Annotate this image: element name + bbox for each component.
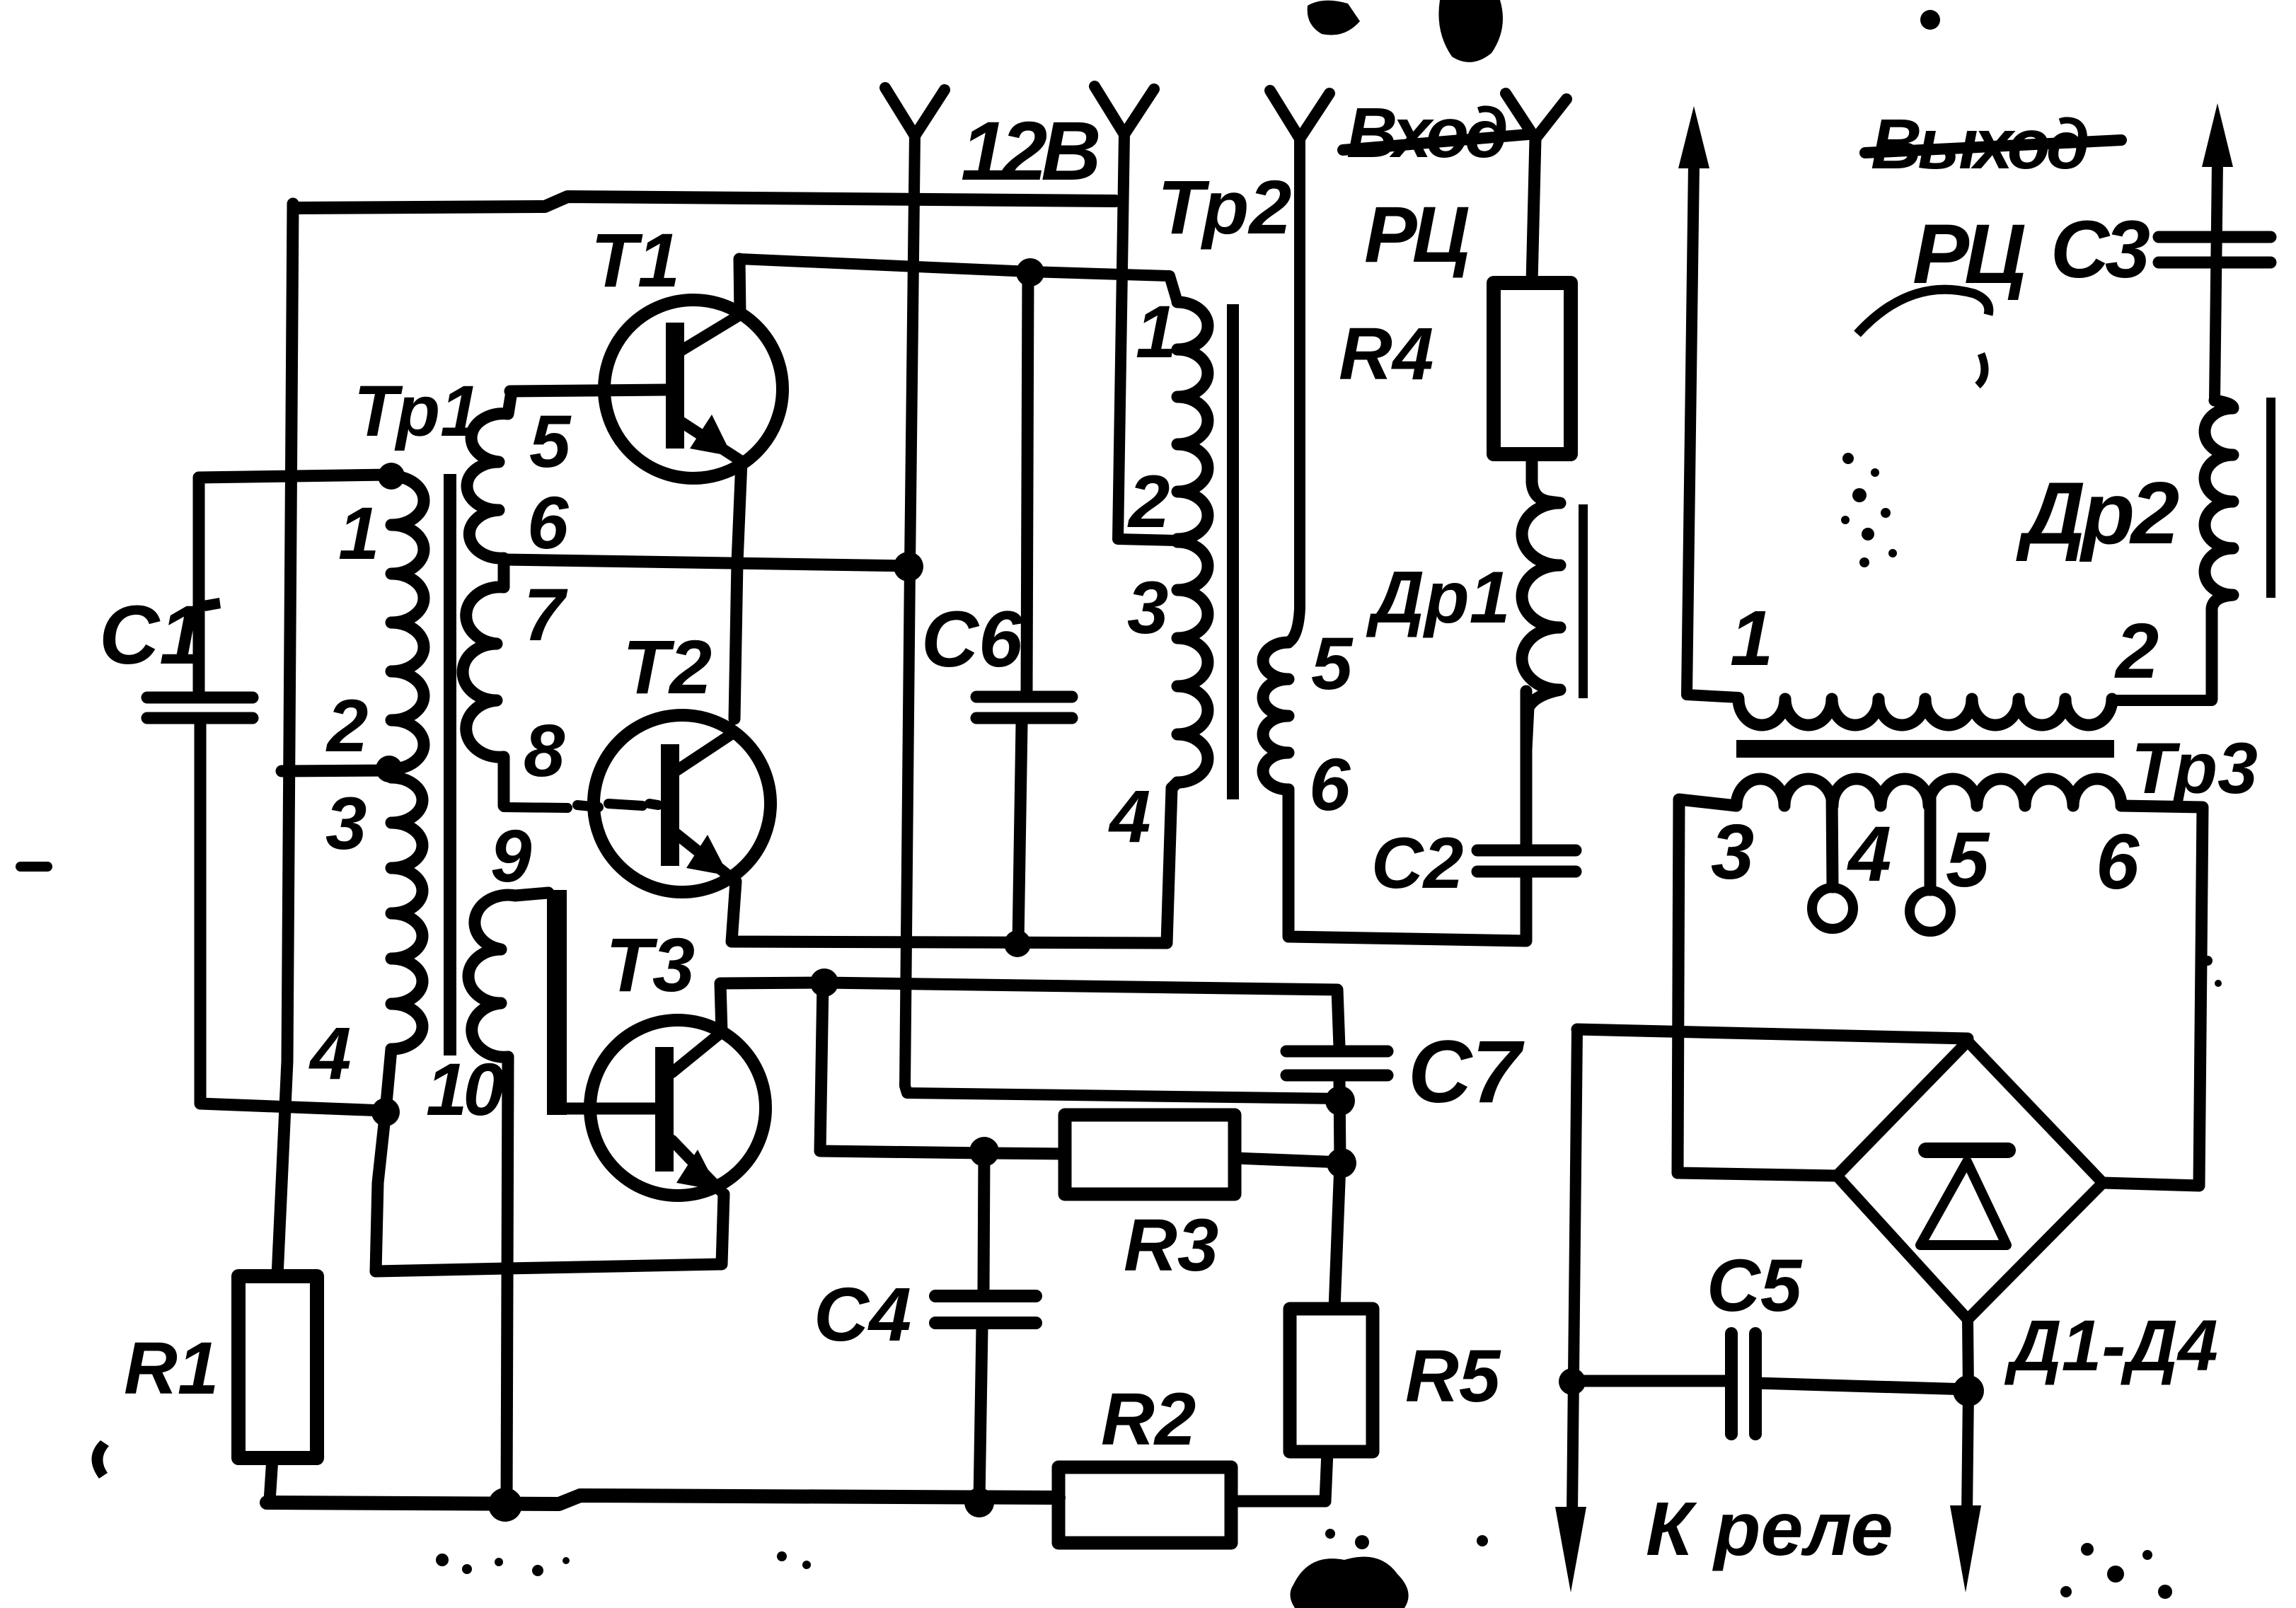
scan speck top right — [1920, 10, 1940, 30]
wire 12V vertical — [905, 133, 1340, 1099]
terminal tap5 circle — [1910, 796, 1951, 932]
wire arrow3 vertical to winding 5 — [1288, 139, 1300, 642]
scan blob bottom middle-right — [1290, 1557, 1408, 1608]
svg-text:С3: С3 — [2050, 204, 2150, 295]
scan paren left of R1 — [91, 1440, 109, 1479]
svg-text:4: 4 — [1847, 811, 1891, 898]
wire Tr2 tap6 to C2 bottom — [1288, 789, 1526, 941]
capacitor C3 — [2159, 237, 2271, 262]
wire tap10 down to ground rail — [507, 1057, 508, 1505]
diode bridge D1-D4 diamond — [1837, 1041, 2103, 1319]
wire branch down to R3/C4 — [820, 983, 1065, 1154]
terminal tap4 circle — [1812, 792, 1853, 929]
node C6 bottom on emitter line — [1004, 930, 1031, 957]
transformer Tr1 secondary winding 7-8 — [463, 562, 504, 806]
capacitor C2 — [1477, 691, 1576, 872]
svg-text:R5: R5 — [1405, 1335, 1501, 1418]
svg-text:10: 10 — [426, 1048, 504, 1131]
node R3 right — [1327, 1148, 1356, 1178]
capacitor C7 — [1286, 1051, 1388, 1309]
node C4 bottom on rail — [964, 1488, 994, 1517]
svg-text:4: 4 — [308, 1012, 351, 1095]
resistor R4 — [1494, 139, 1571, 454]
power terminal fork Tr2-1 — [1095, 86, 1154, 134]
relay terminal arrow right (down) — [1950, 1505, 1981, 1592]
node tap1 Tr1 — [378, 463, 405, 490]
wire collector rail II — [739, 259, 1177, 302]
transformer Tr3 secondary winding 3-6 — [1736, 779, 2121, 806]
label strike-through Vyhod — [1865, 140, 2121, 153]
node C6 top — [1016, 258, 1044, 287]
transistor T1 — [510, 259, 783, 719]
wire Tr3 tap6 lead to bridge right — [2103, 806, 2203, 1186]
wire T3 collector line to C7 — [720, 983, 1339, 1047]
wire tap 2-3 of Tr1 — [282, 770, 391, 771]
svg-text:Тр2: Тр2 — [1158, 164, 1291, 250]
transistor T3 — [590, 1020, 766, 1196]
svg-text:5: 5 — [1311, 623, 1354, 705]
svg-text:С6: С6 — [921, 595, 1023, 683]
transformer Tr2 winding 1-2 — [1177, 302, 1208, 539]
node tap6 junction on 12V line — [894, 552, 923, 582]
wire arrow2 vertical to tap2 — [1118, 134, 1176, 540]
choke Dr2 — [2205, 398, 2275, 699]
node tap4 — [371, 1098, 400, 1126]
capacitor C4 — [935, 1153, 1036, 1501]
wire left DC lead down — [1572, 1029, 1577, 1514]
svg-text:3: 3 — [325, 782, 367, 865]
svg-text:1: 1 — [338, 492, 379, 575]
svg-text:R4: R4 — [1339, 313, 1433, 395]
wire ground rail — [267, 1496, 1058, 1504]
node C5 left — [1559, 1368, 1586, 1395]
transformer Tr1 primary winding 3-4 — [391, 777, 422, 1049]
svg-text:2: 2 — [2114, 608, 2159, 695]
capacitor C1 — [147, 475, 391, 1111]
node tap2-3 — [376, 756, 403, 782]
wire tap8 dashed to T2 base — [504, 804, 658, 808]
svg-text:Тр3: Тр3 — [2131, 728, 2258, 809]
wire tap4 lead down — [376, 1049, 391, 1271]
svg-text:Др1: Др1 — [1366, 557, 1510, 639]
power terminal fork Vhod — [1506, 93, 1567, 139]
svg-text:С7: С7 — [1408, 1023, 1525, 1121]
node C4 top — [969, 1137, 999, 1167]
wire T2 emitter to Tr2 tap4 — [732, 788, 1172, 943]
scan speckle cluster near Dr2 label — [1842, 453, 1854, 464]
svg-text:С2: С2 — [1371, 823, 1463, 903]
scan speckles bottom right corner — [2081, 1543, 2094, 1556]
resistor R2 — [1058, 1467, 1325, 1543]
svg-text:7: 7 — [524, 574, 568, 656]
capacitor C6 — [976, 272, 1072, 943]
power terminal arrow output-2 (solid up arrow) — [2202, 103, 2233, 400]
resistor R3 — [1065, 1115, 1342, 1194]
resistor R5 — [1290, 1309, 1373, 1501]
node ground junction — [488, 1488, 522, 1522]
wire thick bar tap9 to T3 base — [547, 890, 567, 1115]
transformer Tr1 secondary winding 5-6 — [467, 396, 511, 558]
node C7 bottom — [1325, 1086, 1355, 1116]
wire Tr2 tap4 lead — [1172, 782, 1177, 788]
svg-text:С4: С4 — [814, 1271, 911, 1357]
svg-text:Др2: Др2 — [2016, 465, 2179, 562]
power terminal arrow output-1 (solid up arrow) — [1678, 106, 1738, 698]
wire bridge top feed — [1577, 1029, 1968, 1039]
svg-text:1: 1 — [1136, 291, 1177, 374]
scan blob top center 2 — [1438, 0, 1503, 62]
svg-text:2: 2 — [325, 685, 368, 768]
transformer Tr1 secondary winding 9-10 — [468, 893, 548, 1057]
svg-text:РЦ: РЦ — [1364, 190, 1469, 279]
svg-text:С5: С5 — [1707, 1244, 1803, 1327]
svg-text:12В: 12В — [961, 105, 1098, 198]
scan arc under RC label — [1857, 289, 1989, 334]
svg-text:3: 3 — [1127, 567, 1168, 649]
scan speckles bottom left — [436, 1554, 449, 1566]
wire tap6 line to 12V vertical — [504, 560, 908, 566]
svg-text:5: 5 — [1946, 816, 1990, 903]
svg-text:6: 6 — [2096, 819, 2140, 906]
transformer Tr2 core — [1227, 304, 1239, 799]
svg-text:9: 9 — [490, 815, 531, 898]
node R3 branch — [810, 968, 838, 997]
wire T3 base — [557, 1103, 657, 1115]
scan tick near Tr1 — [203, 598, 221, 611]
transformer Tr2 winding 5-6 — [1263, 642, 1288, 789]
svg-text:Выход: Выход — [1871, 105, 2088, 184]
scan blob top center 1 — [1308, 1, 1360, 35]
relay terminal arrow left (down) — [1555, 1507, 1586, 1592]
wire T3 emitter — [376, 1194, 724, 1271]
svg-text:Тр1: Тр1 — [354, 371, 480, 451]
svg-text:8: 8 — [524, 710, 565, 792]
wire top-left +12V rail — [294, 197, 1115, 208]
transformer Tr3 core — [1736, 740, 2114, 758]
label strike-through Vhod — [1343, 134, 1528, 150]
capacitor C5 — [1572, 1334, 1969, 1434]
svg-text:1: 1 — [1730, 595, 1773, 682]
transformer Tr1 primary winding 1-2 — [391, 476, 424, 769]
wire Tr3 tap3 lead to bridge left — [1678, 799, 1837, 1176]
svg-text:С1: С1 — [99, 589, 206, 682]
wire bridge bottom lead — [1967, 1319, 1968, 1514]
svg-text:Т1: Т1 — [591, 217, 680, 303]
svg-text:R2: R2 — [1101, 1378, 1196, 1461]
svg-text:6: 6 — [1309, 744, 1351, 826]
svg-text:Вход: Вход — [1346, 93, 1506, 173]
transformer Tr2 winding 3-4 — [1177, 542, 1208, 782]
power terminal 12V fork — [885, 88, 945, 136]
svg-text:К реле: К реле — [1646, 1486, 1893, 1571]
transistor T2 — [594, 715, 771, 892]
resistor R1 — [238, 1276, 317, 1501]
wire left vertical from rail to R1 — [277, 204, 293, 1276]
svg-text:Д1-Д4: Д1-Д4 — [2004, 1305, 2218, 1386]
svg-text:6: 6 — [527, 482, 569, 565]
svg-text:РЦ: РЦ — [1913, 207, 2025, 301]
transformer Tr1 core — [444, 474, 456, 1055]
power terminal fork Tr2-5 — [1270, 91, 1329, 139]
svg-text:R1: R1 — [124, 1327, 219, 1410]
svg-text:5: 5 — [529, 400, 572, 483]
wire Tr3 tap2 to Dr2 — [2112, 695, 2212, 706]
svg-text:4: 4 — [1108, 775, 1150, 858]
svg-text:Т3: Т3 — [606, 922, 695, 1007]
choke Dr1 — [1522, 456, 1588, 750]
svg-text:Т2: Т2 — [623, 624, 712, 710]
node bridge bottom / C5 right — [1953, 1375, 1984, 1406]
diode symbol — [1920, 1150, 2008, 1245]
svg-text:2: 2 — [1127, 461, 1170, 543]
transformer Tr3 winding 1-2 — [1738, 699, 2112, 725]
svg-text:3: 3 — [1711, 809, 1754, 896]
scan dash left edge — [16, 862, 52, 872]
svg-text:R3: R3 — [1124, 1204, 1218, 1287]
